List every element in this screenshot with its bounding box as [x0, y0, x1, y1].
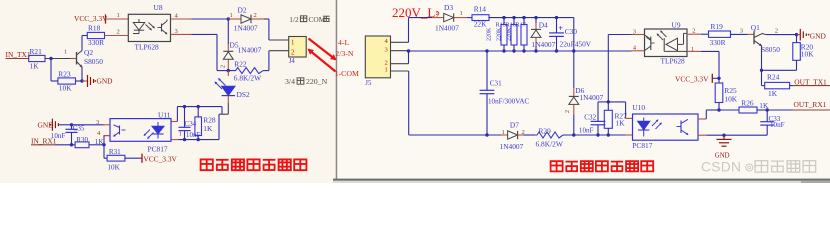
- junction D5/R22/DS2 node: [227, 69, 230, 72]
- svg-text:R17: R17: [516, 21, 526, 28]
- capacitor C35 10nF: [71, 125, 73, 129]
- svg-text:Q1: Q1: [751, 23, 760, 32]
- capacitor C30 22uF450V: [556, 18, 558, 33]
- svg-text:1: 1: [64, 49, 67, 56]
- diode D6 1N4007: [573, 51, 575, 88]
- svg-text:U8: U8: [154, 3, 163, 12]
- svg-text:3/4: 3/4: [285, 77, 295, 86]
- svg-text:R22: R22: [234, 60, 247, 69]
- svg-text:220K: 220K: [487, 27, 493, 41]
- svg-text:S8050: S8050: [761, 45, 780, 54]
- svg-text:TLP628: TLP628: [661, 57, 686, 66]
- wire R29 to U10: [563, 134, 626, 136]
- svg-text:1K: 1K: [768, 89, 778, 98]
- svg-text:220K: 220K: [507, 27, 513, 41]
- resistor R16 220K: [513, 18, 515, 25]
- svg-text:PC817: PC817: [632, 141, 652, 150]
- svg-text:4-L: 4-L: [338, 38, 349, 47]
- svg-text:10K: 10K: [59, 84, 72, 93]
- opto-coupler U11 PC817 box: [110, 119, 171, 142]
- background left panel: [0, 0, 337, 183]
- opto-coupler U9 TLP628 box: [645, 29, 688, 57]
- wire U8 pin3 down to LED node: [192, 33, 218, 35]
- wire U11 pin2 rail: [171, 121, 177, 123]
- title left: chinese red title: [201, 159, 213, 170]
- resistor R23 10K: [58, 78, 76, 84]
- U9 internal LED arrows: [657, 34, 663, 40]
- svg-text:GND: GND: [97, 77, 114, 86]
- U10 internal LED arrows: [652, 120, 658, 126]
- power port VCC_3.3V (R31): [125, 157, 142, 159]
- resistor R25 10K: [718, 78, 720, 83]
- svg-text:+: +: [558, 23, 563, 33]
- svg-text:J5: J5: [365, 80, 372, 87]
- svg-text:2: 2: [291, 49, 295, 56]
- wire J5 pin1 COM net: [408, 71, 410, 135]
- port OUT_RX1: [767, 109, 793, 111]
- svg-text:330R: 330R: [88, 38, 104, 47]
- resistor R17 220K: [523, 18, 525, 25]
- svg-text:R31: R31: [109, 148, 121, 156]
- resistor R18 330R: [81, 36, 83, 51]
- svg-text:220K: 220K: [497, 27, 503, 41]
- svg-text:1: 1: [460, 10, 463, 17]
- connector J5: [365, 36, 390, 78]
- wire R21 to Q2 base: [45, 58, 70, 60]
- U11 internal phototransistor: [119, 126, 121, 135]
- wire DS2 to U11 network: [227, 103, 229, 114]
- svg-text:6.8K/2W: 6.8K/2W: [234, 73, 261, 82]
- junction R25 bottom: [717, 108, 720, 111]
- svg-text:1N4007: 1N4007: [238, 46, 262, 55]
- svg-text:2: 2: [436, 10, 439, 17]
- svg-text:3: 3: [385, 46, 388, 53]
- capacitor C31 10uF/300VAC: [486, 51, 488, 90]
- svg-text:1K: 1K: [203, 124, 213, 133]
- junction R28 top: [197, 105, 200, 108]
- svg-text:R19: R19: [711, 22, 724, 31]
- wire VCC to U8 pin1: [106, 18, 129, 20]
- svg-text:S8050: S8050: [84, 57, 103, 66]
- red annotation arrow 2: [309, 50, 336, 72]
- svg-text:6.8K/2W: 6.8K/2W: [536, 140, 563, 149]
- svg-text:2: 2: [565, 110, 571, 113]
- U8 pin4 stub: [171, 18, 192, 20]
- junction VCC node: [717, 77, 720, 80]
- svg-text:2: 2: [692, 27, 695, 34]
- svg-text:1-COM: 1-COM: [335, 69, 359, 78]
- svg-text:C31: C31: [490, 79, 502, 87]
- svg-text:R23: R23: [58, 70, 71, 79]
- resistor R15 220K: [503, 18, 505, 25]
- U8 internal LED arrows: [146, 25, 152, 31]
- junction R28 bottom: [197, 138, 200, 141]
- svg-text:J4: J4: [289, 58, 296, 65]
- svg-text:C30: C30: [565, 27, 578, 36]
- svg-text:U11: U11: [158, 110, 171, 119]
- svg-text:1N4007: 1N4007: [532, 40, 556, 49]
- svg-text:10K: 10K: [724, 94, 737, 103]
- resistor R21 1K: [29, 55, 45, 61]
- svg-text:2: 2: [775, 27, 778, 34]
- wire N rail into U9 pin4: [608, 50, 631, 52]
- svg-text:R15: R15: [496, 21, 506, 28]
- junction Q2 emitter / R23 / GND: [76, 80, 83, 82]
- svg-text:R30: R30: [76, 136, 88, 144]
- junction C34 bottom: [183, 138, 186, 141]
- resistor R27 1K: [607, 102, 609, 110]
- wire Q1 emitter node: [761, 46, 763, 71]
- resistor R14 22K: [472, 15, 489, 21]
- watermark circle icon: [746, 164, 753, 171]
- U11 internal LED arrows: [144, 130, 150, 136]
- opto-coupler U10 PC817 box: [633, 114, 699, 140]
- svg-text:PC817: PC817: [148, 145, 168, 154]
- svg-text:D2: D2: [238, 6, 247, 15]
- svg-text:R24: R24: [767, 73, 780, 82]
- svg-text:2: 2: [385, 59, 388, 66]
- red annotation arrow 1: [309, 39, 336, 60]
- diode D5 1N4007: [227, 19, 229, 44]
- svg-text:22uF450V: 22uF450V: [560, 40, 592, 49]
- svg-text:TLP628: TLP628: [135, 43, 160, 52]
- svg-text:10K: 10K: [801, 50, 814, 59]
- port OUT_TX1: [790, 85, 793, 87]
- svg-text:U10: U10: [632, 103, 645, 112]
- svg-text:CSDN: CSDN: [701, 159, 741, 174]
- U8 internal phototransistor: [161, 24, 163, 32]
- svg-text:2: 2: [221, 65, 227, 68]
- svg-text:10nF/300VAC: 10nF/300VAC: [488, 98, 530, 106]
- svg-text:330R: 330R: [710, 38, 726, 47]
- wire N rail: [409, 50, 632, 52]
- svg-text:1N4007: 1N4007: [435, 23, 459, 32]
- svg-text:1: 1: [179, 130, 182, 137]
- wire D2 to J4 pin1: [268, 19, 270, 40]
- junction C35/IN_RX1: [70, 143, 73, 146]
- wire J5 pin2 to N rail: [408, 51, 410, 64]
- wire node to U10 pin anode: [608, 101, 625, 103]
- junction R27 top node: [607, 100, 610, 103]
- wire U8 pin4 to node: [192, 18, 229, 20]
- resistor R28 1K: [197, 107, 199, 117]
- U9 internal phototransistor: [650, 37, 652, 51]
- wire R22 to J4 pin2: [263, 70, 269, 72]
- wire J5 pin4 L net: [408, 18, 410, 43]
- U10 emitter out: [698, 134, 706, 136]
- title right: chinese red title: [551, 161, 563, 171]
- svg-text:R29: R29: [539, 126, 552, 135]
- U8 internal LED: [138, 19, 140, 23]
- svg-text:2: 2: [117, 29, 120, 36]
- junction C34 top: [183, 105, 186, 108]
- resistor R29 6.8K/2W: [524, 134, 536, 136]
- U10 internal LED: [638, 121, 650, 130]
- svg-text:GND: GND: [38, 120, 55, 129]
- svg-text:OUT_TX1: OUT_TX1: [794, 77, 827, 86]
- ground symbol (mid): [723, 135, 725, 139]
- U11 internal LED: [152, 126, 164, 134]
- svg-text:VCC_3.3V: VCC_3.3V: [143, 154, 177, 163]
- svg-text:R18: R18: [88, 24, 101, 33]
- transistor Q2 S8050: [76, 52, 78, 65]
- svg-text:1: 1: [230, 12, 233, 19]
- resistor R22 6.8K/2W: [228, 70, 233, 72]
- capacitor C34 10nF: [184, 107, 186, 128]
- svg-text:2/3-N: 2/3-N: [335, 49, 354, 58]
- svg-text:10nF: 10nF: [579, 126, 594, 134]
- junction R20 top: [795, 33, 798, 36]
- wire R19 to Q1 base: [731, 33, 748, 35]
- svg-text:1N4007: 1N4007: [234, 23, 258, 32]
- resistor R30: [75, 142, 89, 148]
- svg-text:D7: D7: [510, 121, 519, 130]
- capacitor C32 10nF: [598, 101, 608, 103]
- wire U9 pin1 to VCC node: [687, 50, 701, 52]
- diode D4 1N4007: [535, 18, 537, 23]
- resistor R31 10K: [103, 145, 105, 158]
- svg-text:VCC_3.3V: VCC_3.3V: [675, 74, 709, 83]
- svg-text:R14: R14: [474, 4, 487, 13]
- U8 pin3 stub: [171, 33, 192, 35]
- junction R31 tap: [102, 143, 105, 146]
- svg-text:OUT_RX1: OUT_RX1: [794, 100, 827, 109]
- svg-text:2: 2: [254, 12, 257, 19]
- wire R30 to U11 pin4: [89, 144, 104, 146]
- connector J4: [289, 37, 307, 58]
- svg-text:IN_TX1: IN_TX1: [6, 50, 31, 59]
- junction GND tap: [722, 134, 725, 137]
- LED DS2: [227, 71, 229, 76]
- wire U9 pin3 net down: [608, 34, 631, 36]
- U11 left pin stubs: [104, 124, 111, 126]
- bottom page strip: [333, 179, 830, 181]
- svg-text:R21: R21: [30, 47, 43, 56]
- svg-text:1: 1: [291, 39, 294, 46]
- resistor R19 330R: [709, 31, 731, 37]
- wire down to R23: [50, 59, 52, 82]
- U10 pin cathode stub: [626, 134, 633, 136]
- svg-text:1: 1: [117, 12, 120, 19]
- U10 internal phototransistor: [680, 121, 682, 134]
- junction C33 top: [766, 108, 769, 111]
- svg-text:1K: 1K: [616, 118, 626, 127]
- opto-coupler U8 TLP628 box: [128, 14, 170, 41]
- svg-text:22K: 22K: [474, 19, 487, 28]
- svg-text:C35: C35: [73, 125, 85, 133]
- ground symbol (Q1): [799, 29, 801, 41]
- svg-text:R16: R16: [506, 21, 516, 28]
- wire to R26: [719, 109, 739, 111]
- svg-text:1N4007: 1N4007: [500, 142, 524, 151]
- svg-text:VCC_3.3V: VCC_3.3V: [74, 14, 108, 23]
- junction node D2/D5: [227, 17, 230, 20]
- wire top rail down right: [573, 18, 575, 51]
- svg-text:10K: 10K: [108, 163, 121, 171]
- svg-text:Q2: Q2: [84, 48, 93, 57]
- svg-text:D4: D4: [539, 20, 548, 29]
- wire GND to U11 pin3: [58, 124, 71, 126]
- U9 pin2 stub to R19: [686, 32, 688, 35]
- svg-text:D3: D3: [444, 3, 453, 12]
- resistor R20 10K: [796, 35, 798, 43]
- resistor R24 1K: [761, 70, 763, 85]
- J5 pin lines: [391, 41, 409, 43]
- ground symbol (Q2): [87, 75, 89, 87]
- svg-text:U9: U9: [672, 20, 681, 29]
- U10 collector out: [698, 118, 706, 120]
- svg-text:1N4007: 1N4007: [579, 93, 603, 102]
- transistor Q1 S8050: [753, 31, 755, 44]
- U11 pin1 stub: [171, 139, 179, 141]
- svg-text:1K: 1K: [30, 62, 40, 71]
- svg-text:10nF: 10nF: [770, 121, 785, 129]
- wire R18 to U8 pin2: [105, 35, 129, 37]
- resistor R26 1K: [739, 107, 757, 113]
- svg-text:1/2: 1/2: [289, 15, 299, 24]
- background right panel: [337, 0, 830, 183]
- panel divider: [336, 0, 338, 179]
- svg-text:220_N: 220_N: [306, 77, 328, 86]
- watermark chinese characters: [755, 161, 768, 172]
- junction IN_TX1 node: [49, 57, 52, 60]
- svg-text:1: 1: [385, 67, 388, 74]
- U9 left pin stubs: [632, 34, 645, 36]
- junction C31 bottom: [485, 133, 488, 136]
- svg-text:GND: GND: [810, 32, 827, 41]
- capacitor C33 10nF: [766, 110, 768, 122]
- U9 internal LED: [666, 38, 678, 50]
- wire DC top rail: [489, 17, 574, 19]
- svg-text:C32: C32: [584, 114, 596, 122]
- svg-text:DS2: DS2: [237, 90, 250, 99]
- wire Q1 collector to GND: [763, 34, 767, 35]
- svg-text:R26: R26: [741, 98, 754, 107]
